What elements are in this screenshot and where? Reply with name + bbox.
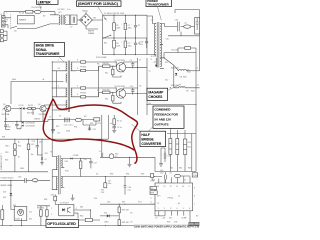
svg-text:R38 10K: R38 10K bbox=[122, 222, 130, 224]
wire AC line top bbox=[4, 12, 55, 16]
svg-text:R52: R52 bbox=[18, 146, 21, 148]
svg-text:R39: R39 bbox=[167, 222, 170, 224]
svg-text:C7: C7 bbox=[139, 59, 141, 61]
capacitor C9 bbox=[130, 60, 135, 68]
resistor pack RP1 bbox=[169, 139, 172, 155]
wire output bus bbox=[100, 156, 150, 158]
svg-text:SBL1040: SBL1040 bbox=[171, 85, 178, 87]
diode D1 bbox=[20, 107, 22, 109]
svg-text:13: 13 bbox=[163, 186, 165, 188]
svg-text:+5: +5 bbox=[99, 151, 101, 153]
svg-text:0.1u: 0.1u bbox=[67, 9, 71, 11]
svg-text:TRANSFORMER: TRANSFORMER bbox=[147, 3, 169, 7]
svg-text:R7 22: R7 22 bbox=[117, 121, 122, 123]
svg-text:FEEDBACK FOR: FEEDBACK FOR bbox=[154, 113, 178, 117]
capacitor C6 bbox=[131, 23, 137, 31]
label POWER TRANSFORMER bbox=[146, 0, 172, 7]
svg-text:5: 5 bbox=[77, 85, 78, 87]
svg-text:C1: C1 bbox=[178, 195, 180, 197]
svg-text:R21: R21 bbox=[188, 147, 191, 149]
svg-text:C36: C36 bbox=[94, 198, 97, 200]
ground bbox=[151, 56, 158, 67]
svg-text:D12: D12 bbox=[165, 79, 168, 81]
svg-text:C20: C20 bbox=[166, 39, 169, 41]
svg-text:1N60: 1N60 bbox=[104, 222, 108, 224]
wire leader bbox=[158, 7, 162, 20]
resistor R51 bbox=[14, 150, 17, 155]
wire bbox=[14, 139, 16, 172]
capacitor C2 bbox=[69, 15, 74, 25]
svg-text:R12: R12 bbox=[105, 72, 108, 74]
resistor R19 bbox=[81, 96, 86, 98]
svg-text:SCANNED SHEET 1: SCANNED SHEET 1 bbox=[0, 153, 3, 170]
relay box K1 bbox=[18, 15, 35, 24]
wire leader bbox=[40, 4, 42, 9]
svg-text:X2: X2 bbox=[138, 25, 140, 27]
svg-text:HALF: HALF bbox=[141, 133, 149, 137]
svg-text:T2: T2 bbox=[59, 115, 61, 117]
resistor R13 bbox=[94, 118, 100, 121]
svg-text:D30: D30 bbox=[51, 195, 54, 197]
svg-text:D1 D2: D1 D2 bbox=[19, 105, 24, 107]
svg-text:C35: C35 bbox=[107, 202, 110, 204]
svg-text:330u: 330u bbox=[128, 45, 132, 47]
extra wires: secondary low rails bbox=[164, 48, 196, 71]
svg-text:R61: R61 bbox=[13, 205, 16, 207]
wire bbox=[114, 15, 136, 38]
transistor Q1 bbox=[114, 60, 125, 73]
wire bus bbox=[11, 82, 64, 105]
wire bbox=[4, 121, 48, 124]
wire bbox=[150, 148, 165, 172]
svg-text:R18: R18 bbox=[90, 123, 93, 125]
diode D4 bbox=[22, 125, 35, 128]
transistor Q3 bbox=[1, 105, 11, 115]
svg-text:22u: 22u bbox=[84, 159, 87, 161]
wire verticals bbox=[170, 128, 192, 172]
capacitor C19 bbox=[88, 128, 91, 129]
connector J1 bbox=[0, 14, 5, 27]
switch SW1 bbox=[10, 26, 36, 28]
wire bbox=[17, 121, 21, 129]
resistor R11 bbox=[112, 95, 114, 101]
svg-text:J1: J1 bbox=[0, 14, 2, 16]
svg-text:ZD1: ZD1 bbox=[3, 191, 6, 193]
svg-text:+12: +12 bbox=[57, 68, 60, 70]
wire bbox=[48, 120, 100, 130]
svg-text:D4 1N4148: D4 1N4148 bbox=[25, 126, 34, 128]
resistor R18 bbox=[81, 87, 86, 89]
svg-text:F1 5A: F1 5A bbox=[19, 11, 25, 14]
transistor Q2 bbox=[114, 86, 125, 99]
svg-text:PR 330: PR 330 bbox=[80, 66, 86, 68]
svg-text:IC4: IC4 bbox=[29, 211, 32, 213]
label MAGAMP CHOKES bbox=[147, 88, 168, 100]
capacitor C17 bbox=[89, 159, 97, 169]
svg-text:E2: E2 bbox=[196, 215, 198, 217]
wire T2 left taps bbox=[52, 62, 67, 110]
wire bbox=[74, 15, 80, 25]
svg-text:OUTPUTS: OUTPUTS bbox=[154, 123, 168, 127]
wire bbox=[105, 177, 125, 186]
svg-text:10: 10 bbox=[182, 186, 184, 188]
svg-text:6: 6 bbox=[151, 202, 152, 204]
wire 12V rail bbox=[186, 70, 199, 72]
wire bbox=[76, 62, 116, 71]
wire aux feedback row bbox=[83, 115, 109, 139]
svg-text:C46: C46 bbox=[175, 19, 178, 21]
svg-text:R41: R41 bbox=[170, 168, 173, 170]
svg-text:C13: C13 bbox=[31, 144, 34, 146]
svg-text:4: 4 bbox=[76, 208, 77, 210]
thermistor TH1 bbox=[34, 10, 41, 13]
svg-text:R36 10K: R36 10K bbox=[122, 209, 130, 211]
resistor R3 bbox=[113, 40, 116, 48]
label BASE DRIVE SIGNAL TRANSFORMER bbox=[34, 42, 64, 56]
svg-text:R20: R20 bbox=[188, 142, 191, 144]
svg-text:C14 C15 1n: C14 C15 1n bbox=[64, 124, 74, 126]
resistor pack RP3 bbox=[183, 139, 186, 155]
diode D7 bbox=[41, 139, 43, 162]
svg-text:C5: C5 bbox=[49, 117, 51, 119]
resistor R52 bbox=[27, 144, 30, 150]
svg-text:R51: R51 bbox=[5, 152, 8, 154]
capacitor C8 bbox=[131, 40, 137, 48]
resistor R16 bbox=[81, 61, 86, 63]
svg-text:R34: R34 bbox=[126, 174, 129, 176]
svg-text:2: 2 bbox=[51, 213, 52, 215]
svg-text:C21: C21 bbox=[57, 133, 60, 135]
svg-text:0.1 250V: 0.1 250V bbox=[58, 9, 66, 11]
label HALF BRIDGE CONVERTER bbox=[140, 131, 166, 146]
fusible resistor FR1 bbox=[75, 118, 82, 121]
capacitor C11 bbox=[112, 125, 116, 131]
label LIMITER bbox=[37, 0, 59, 4]
capacitor C47b bbox=[104, 181, 112, 188]
svg-text:FR1: FR1 bbox=[74, 127, 77, 129]
svg-text:E1: E1 bbox=[178, 203, 180, 205]
wire bbox=[0, 152, 48, 172]
transformer T1 bbox=[151, 20, 162, 68]
wire bbox=[150, 204, 165, 216]
shunt regulator U3 TL431 bbox=[14, 207, 27, 221]
svg-text:R0: R0 bbox=[43, 15, 45, 17]
choke L2 bbox=[179, 69, 191, 73]
capacitor C46 bbox=[175, 19, 180, 31]
svg-text:C30: C30 bbox=[167, 155, 170, 157]
wire right rail bbox=[196, 36, 200, 172]
resistor R50 bbox=[14, 144, 17, 149]
svg-text:PR 330: PR 330 bbox=[80, 92, 86, 94]
transformer T2 bbox=[66, 61, 72, 113]
svg-text:C9 1n: C9 1n bbox=[117, 127, 122, 129]
wire bbox=[11, 206, 50, 226]
svg-text:PS224: PS224 bbox=[168, 197, 173, 199]
wire leader bbox=[132, 124, 140, 131]
wire T1 primary taps bbox=[147, 16, 156, 55]
svg-text:OPTO-ISOLATED: OPTO-ISOLATED bbox=[47, 222, 76, 226]
svg-text:7: 7 bbox=[194, 204, 195, 206]
svg-text:R63 R64: R63 R64 bbox=[37, 208, 44, 210]
capacitor C3 bbox=[73, 17, 74, 23]
svg-text:10u: 10u bbox=[31, 154, 34, 156]
svg-text:R7: R7 bbox=[97, 90, 99, 92]
wire leader bbox=[98, 6, 107, 20]
svg-text:+: + bbox=[121, 41, 122, 43]
svg-text:D13: D13 bbox=[39, 142, 42, 144]
wire leader bbox=[168, 84, 181, 90]
capacitor C13 bbox=[36, 139, 39, 152]
wire bbox=[0, 179, 50, 181]
svg-text:2.5: 2.5 bbox=[115, 156, 118, 158]
svg-text:8: 8 bbox=[194, 195, 195, 197]
svg-text:330u: 330u bbox=[128, 27, 132, 29]
capacitor C16 bbox=[51, 129, 55, 133]
wire T2 right taps bbox=[71, 62, 76, 97]
svg-text:CHOKES: CHOKES bbox=[148, 95, 163, 99]
svg-text:+5VSB: +5VSB bbox=[73, 155, 79, 157]
svg-text:R42: R42 bbox=[179, 168, 182, 170]
wire bbox=[66, 15, 69, 25]
ferrite bead FB3 bbox=[175, 174, 181, 177]
svg-text:8 V1 8: 8 V1 8 bbox=[151, 56, 156, 58]
svg-text:431: 431 bbox=[29, 219, 32, 221]
svg-text:6: 6 bbox=[189, 208, 190, 210]
capacitor C4 left bbox=[4, 121, 10, 129]
svg-text:4: 4 bbox=[176, 208, 177, 210]
svg-text:+12: +12 bbox=[184, 23, 187, 25]
svg-text:12: 12 bbox=[170, 186, 172, 188]
wire diagonal from T1 secondary bbox=[160, 58, 178, 88]
svg-text:+12: +12 bbox=[153, 61, 156, 63]
svg-text:+12: +12 bbox=[196, 85, 199, 87]
capacitor C12 bbox=[99, 151, 103, 158]
svg-text:1: 1 bbox=[51, 208, 52, 210]
svg-text:680: 680 bbox=[80, 207, 83, 209]
svg-text:1%: 1% bbox=[130, 222, 133, 224]
svg-text:5V AND 12V: 5V AND 12V bbox=[154, 118, 172, 122]
svg-text:LIMITER: LIMITER bbox=[38, 0, 52, 4]
ferrite bead FB1 bbox=[184, 25, 191, 28]
transistor Q4 bbox=[39, 105, 47, 115]
svg-text:CX1: CX1 bbox=[58, 12, 62, 14]
svg-text:PC2: PC2 bbox=[138, 202, 142, 204]
opto-coupler U2 bbox=[59, 203, 74, 216]
diode D3 bbox=[22, 122, 35, 125]
label OPTO-ISOLATED bbox=[46, 220, 79, 228]
svg-text:9: 9 bbox=[194, 187, 195, 189]
red annotation freehand loop bbox=[43, 99, 137, 163]
wire bbox=[116, 88, 137, 94]
svg-text:FRAME: FRAME bbox=[88, 32, 95, 35]
svg-text:TL494: TL494 bbox=[193, 175, 198, 177]
wire T3 taps bbox=[52, 156, 64, 190]
resistor R7 bbox=[113, 119, 116, 125]
wire bbox=[74, 210, 91, 218]
wire bbox=[86, 12, 103, 29]
svg-text:KBU4J: KBU4J bbox=[82, 10, 88, 12]
svg-text:TL431: TL431 bbox=[15, 218, 20, 220]
svg-text:1n: 1n bbox=[110, 123, 112, 125]
capacitor C5 bbox=[121, 23, 127, 29]
svg-text:R23: R23 bbox=[98, 123, 101, 125]
svg-text:D30: D30 bbox=[65, 161, 68, 163]
resistor R22 bbox=[185, 47, 191, 50]
svg-text:+: + bbox=[131, 41, 132, 43]
svg-text:GND: GND bbox=[20, 168, 25, 170]
wire rails bbox=[103, 15, 148, 54]
svg-text:BRIDGE: BRIDGE bbox=[141, 137, 154, 141]
svg-text:TO AUX 5V/12V: TO AUX 5V/12V bbox=[0, 177, 14, 180]
svg-text:FB2: FB2 bbox=[34, 182, 37, 184]
small box SB2 bbox=[194, 222, 199, 226]
resistor R63 bbox=[40, 210, 43, 216]
svg-text:Q4: Q4 bbox=[38, 104, 40, 106]
wire output frame bbox=[175, 10, 200, 36]
svg-text:11: 11 bbox=[176, 186, 178, 188]
svg-text:+: + bbox=[121, 23, 122, 25]
diode D5 bbox=[175, 73, 177, 75]
svg-text:2: 2 bbox=[58, 85, 59, 87]
label TL494 bbox=[192, 173, 198, 177]
wire bbox=[102, 115, 114, 152]
svg-text:C50: C50 bbox=[160, 172, 163, 174]
svg-text:R66: R66 bbox=[44, 199, 47, 201]
svg-text:C4: C4 bbox=[5, 119, 7, 121]
resistor R1 bbox=[26, 10, 33, 13]
diode D10 bbox=[100, 214, 119, 217]
small box SB1 bbox=[189, 222, 194, 226]
wire row bbox=[3, 108, 50, 110]
svg-text:5: 5 bbox=[151, 197, 152, 199]
wire leader bbox=[147, 127, 153, 134]
resistor R60 bbox=[80, 161, 82, 169]
choke L1 bbox=[59, 15, 66, 25]
svg-text:1%: 1% bbox=[130, 212, 133, 214]
svg-text:7000: 7000 bbox=[191, 90, 195, 92]
resistor R38 bbox=[118, 220, 120, 226]
bridge rectifier BR1 bbox=[80, 14, 93, 27]
svg-text:SBL2040: SBL2040 bbox=[171, 68, 178, 70]
svg-text:1: 1 bbox=[158, 208, 159, 210]
connector header P1 bbox=[150, 186, 157, 190]
svg-text:1u: 1u bbox=[149, 71, 151, 73]
wire bbox=[76, 88, 116, 97]
svg-text:PRI: PRI bbox=[2, 136, 5, 138]
wire bbox=[100, 204, 155, 207]
resistor R9 bbox=[112, 69, 114, 75]
wire section divider bbox=[0, 138, 108, 140]
svg-text:200W SWITCHING POWER SUPPLY SC: 200W SWITCHING POWER SUPPLY SCHEMATIC RE… bbox=[134, 226, 200, 229]
resistor R70 bbox=[151, 173, 154, 177]
svg-text:FOR 230VAC: FOR 230VAC bbox=[96, 56, 108, 59]
svg-text:1N4937: 1N4937 bbox=[34, 119, 40, 121]
wire bbox=[55, 194, 59, 204]
op-amp U1 PWM controller bbox=[155, 183, 193, 211]
svg-text:R8 330: R8 330 bbox=[103, 63, 109, 65]
svg-text:L: L bbox=[7, 12, 8, 14]
svg-text:12: 12 bbox=[184, 180, 186, 182]
ground bbox=[112, 130, 116, 132]
capacitor C15 bbox=[68, 118, 69, 123]
wire bottom bus bbox=[0, 225, 100, 227]
diode D9 bbox=[10, 180, 13, 209]
wire bbox=[116, 62, 137, 67]
svg-text:R37: R37 bbox=[122, 202, 125, 204]
svg-text:C18: C18 bbox=[18, 177, 21, 179]
capacitor C18 bbox=[25, 178, 26, 183]
wire leader bbox=[59, 56, 65, 62]
connector header P2 bbox=[150, 191, 157, 195]
wire bbox=[5, 18, 11, 29]
svg-text:R6: R6 bbox=[97, 64, 99, 66]
wire bbox=[165, 27, 200, 36]
ground bbox=[71, 194, 75, 200]
svg-text:R15 R16: R15 R16 bbox=[27, 113, 34, 115]
AC inlet pin blocks bbox=[0, 30, 7, 42]
svg-text:IC3: IC3 bbox=[150, 188, 153, 190]
svg-text:C22: C22 bbox=[32, 141, 35, 143]
svg-text:R19: R19 bbox=[56, 126, 59, 128]
svg-text:C17: C17 bbox=[94, 162, 97, 164]
svg-text:D11: D11 bbox=[165, 62, 168, 64]
ferrite bead FB2 bbox=[32, 179, 38, 182]
svg-text:C9: C9 bbox=[130, 60, 132, 62]
svg-text:Q1 2SC3039: Q1 2SC3039 bbox=[114, 60, 124, 62]
svg-text:3: 3 bbox=[77, 59, 78, 61]
resistor R62 bbox=[1, 210, 4, 220]
svg-text:R50: R50 bbox=[5, 145, 8, 147]
svg-text:R4 R5: R4 R5 bbox=[28, 105, 33, 107]
resistor R36 bbox=[118, 207, 120, 213]
wire vertical rails left bbox=[52, 62, 56, 156]
svg-text:+: + bbox=[12, 123, 13, 125]
svg-text:7000: 7000 bbox=[187, 72, 191, 74]
capacitor C6b bbox=[6, 123, 18, 129]
small parts D30 bbox=[54, 196, 57, 201]
resistor R4 bbox=[28, 108, 31, 110]
resistor R10 bbox=[103, 91, 111, 94]
wire bbox=[129, 157, 131, 164]
capacitor C47 bbox=[195, 18, 200, 34]
svg-text:C19: C19 bbox=[93, 129, 96, 131]
node junctions bbox=[114, 15, 115, 16]
svg-text:TRANSFORMER: TRANSFORMER bbox=[36, 52, 60, 56]
ground bbox=[40, 163, 44, 165]
svg-text:D31: D31 bbox=[104, 212, 107, 214]
wire bbox=[6, 105, 68, 121]
wire T1 secondary taps bbox=[160, 24, 165, 69]
svg-text:R35: R35 bbox=[141, 174, 144, 176]
diode D2 bbox=[23, 107, 25, 109]
label COMBINED FEEDBACK bbox=[153, 106, 184, 128]
svg-text:B+: B+ bbox=[18, 142, 20, 144]
svg-text:R14: R14 bbox=[105, 99, 108, 101]
wire 5VSB line bbox=[64, 159, 155, 177]
resistor R65 bbox=[79, 218, 100, 221]
capacitor C7 bbox=[121, 41, 127, 47]
svg-text:+: + bbox=[131, 23, 132, 25]
svg-text:R33: R33 bbox=[110, 174, 113, 176]
svg-text:115: 115 bbox=[14, 30, 17, 32]
svg-text:D3 1N4148: D3 1N4148 bbox=[25, 122, 34, 124]
svg-text:0.1u: 0.1u bbox=[128, 190, 132, 192]
capacitor C50 bbox=[165, 172, 167, 183]
svg-text:COMBINED: COMBINED bbox=[154, 108, 171, 112]
switch SW1 dashed link bbox=[10, 14, 12, 28]
svg-text:2: 2 bbox=[164, 208, 165, 210]
svg-text:6V2: 6V2 bbox=[3, 197, 6, 199]
